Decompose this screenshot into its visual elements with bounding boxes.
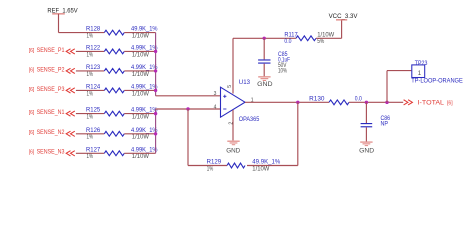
svg-text:1/10W: 1/10W	[132, 115, 149, 121]
wire supply rail left	[233, 37, 296, 39]
wire supply rail right	[316, 37, 342, 39]
svg-text:SENSE_N3: SENSE_N3	[37, 150, 65, 156]
wire N bus vertical	[155, 109, 157, 153]
svg-text:1/10W: 1/10W	[132, 154, 149, 160]
off-sheet connector SENSE_P1	[66, 49, 75, 54]
junction TP23 tap	[385, 101, 388, 104]
wire R126 right	[124, 133, 155, 135]
wire op-amp V- pin2	[232, 110, 234, 140]
svg-text:SENSE_N1: SENSE_N1	[37, 110, 65, 116]
resistor R122	[86, 46, 158, 59]
wire C85 upper	[263, 38, 265, 59]
svg-text:SENSE_N2: SENSE_N2	[37, 130, 65, 136]
svg-text:[6]: [6]	[29, 87, 35, 93]
power port VCC_3.3V	[329, 14, 358, 21]
svg-text:1/10W: 1/10W	[252, 166, 269, 172]
svg-text:1%: 1%	[87, 115, 94, 121]
wire C86 lower	[365, 127, 367, 141]
ground C85	[258, 76, 270, 77]
svg-text:1%: 1%	[87, 34, 94, 40]
wire R125 right	[124, 113, 155, 115]
svg-text:U13: U13	[239, 80, 251, 86]
wire feedback bottom right	[247, 165, 298, 167]
svg-text:4.99K_1%: 4.99K_1%	[131, 46, 158, 52]
junction P bus R124	[154, 89, 157, 92]
svg-text:[6]: [6]	[29, 130, 35, 136]
svg-text:GND: GND	[226, 148, 240, 155]
svg-text:1%: 1%	[87, 72, 94, 78]
svg-text:0.0: 0.0	[284, 39, 292, 45]
resistor R125	[86, 108, 158, 121]
svg-text:[6]: [6]	[29, 110, 35, 116]
off-sheet connector SENSE_N1	[66, 111, 75, 116]
wire R128 left	[59, 32, 105, 34]
svg-text:1/10W: 1/10W	[132, 52, 149, 58]
junction P bus R122	[154, 50, 157, 53]
svg-text:4.99K_1%: 4.99K_1%	[131, 85, 158, 91]
svg-text:49.9K_1%: 49.9K_1%	[252, 160, 281, 166]
wire C85 lower	[263, 64, 265, 76]
resistor R126	[86, 128, 158, 141]
svg-text:R130: R130	[309, 96, 325, 102]
svg-text:4.99K_1%: 4.99K_1%	[131, 147, 158, 153]
off-sheet connector SENSE_N2	[66, 131, 75, 136]
capacitor C86	[361, 116, 391, 128]
wire R122 right	[124, 50, 155, 52]
svg-text:OPA365: OPA365	[239, 117, 260, 123]
wire op-amp pin3	[156, 95, 221, 97]
wire C86 upper	[365, 102, 367, 123]
junction P bus R123	[154, 69, 157, 72]
resistor R129	[207, 160, 281, 173]
test point TP23	[411, 61, 463, 85]
svg-text:1%: 1%	[87, 91, 94, 97]
resistor R128	[86, 27, 158, 40]
svg-text:R128: R128	[86, 27, 101, 33]
svg-text:5%: 5%	[317, 39, 325, 45]
svg-text:4: 4	[214, 104, 217, 110]
svg-text:SENSE_P2: SENSE_P2	[37, 67, 65, 73]
svg-text:[6]: [6]	[29, 67, 35, 73]
wire op-amp pin4	[156, 108, 221, 110]
wire R128 right	[124, 32, 155, 34]
wire output right	[349, 101, 403, 103]
off-sheet connector SENSE_P2	[66, 68, 75, 73]
wire R123 right	[124, 70, 155, 72]
ground C86	[360, 142, 372, 143]
svg-text:1/10W: 1/10W	[132, 72, 149, 78]
svg-text:1%: 1%	[87, 135, 94, 141]
svg-text:GND: GND	[359, 147, 374, 154]
svg-text:1/10W: 1/10W	[132, 34, 149, 40]
svg-text:10%: 10%	[278, 69, 287, 75]
power port REF_1.65V	[47, 8, 77, 14]
wire feedback bottom left	[188, 165, 227, 167]
resistor R117	[284, 33, 334, 45]
svg-text:TP-LOOP-ORANGE: TP-LOOP-ORANGE	[411, 79, 463, 85]
wire feedback left vertical	[187, 109, 189, 166]
svg-text:TP23: TP23	[415, 61, 428, 67]
wire R122 left	[76, 50, 104, 52]
svg-text:1%: 1%	[207, 166, 214, 172]
wire R127 right	[124, 152, 155, 154]
svg-text:1/10W: 1/10W	[132, 135, 149, 141]
junction feedback tap	[186, 107, 189, 110]
wire op-amp V+ pin5	[232, 38, 234, 93]
svg-text:5: 5	[227, 85, 233, 88]
svg-text:I-TOTAL: I-TOTAL	[418, 100, 445, 106]
wire REF_1.65V vertical	[58, 14, 60, 33]
off-sheet connector I-TOTAL	[404, 100, 413, 105]
svg-text:0.0: 0.0	[355, 96, 363, 102]
svg-text:4.99K_1%: 4.99K_1%	[131, 65, 158, 71]
wire R124 right	[124, 89, 155, 91]
svg-text:2: 2	[229, 122, 235, 125]
svg-text:3: 3	[214, 91, 217, 97]
wire TP23 horizontal	[387, 70, 411, 72]
svg-text:GND: GND	[257, 81, 273, 88]
svg-text:VCC_3.3V: VCC_3.3V	[329, 14, 358, 20]
svg-text:[6]: [6]	[29, 48, 35, 54]
svg-text:1%: 1%	[87, 52, 94, 58]
svg-text:R126: R126	[86, 128, 101, 134]
wire R124 left	[76, 89, 104, 91]
svg-text:R124: R124	[86, 85, 101, 91]
svg-text:NP: NP	[381, 122, 389, 128]
off-sheet connector SENSE_N3	[66, 151, 75, 156]
svg-text:R122: R122	[86, 46, 101, 52]
svg-text:R123: R123	[86, 65, 101, 71]
wire P bus vertical	[155, 33, 157, 96]
resistor R123	[86, 65, 158, 78]
svg-text:[6]: [6]	[447, 100, 453, 106]
svg-text:1/10W: 1/10W	[132, 91, 149, 97]
wire feedback right vertical	[297, 102, 299, 165]
junction C86	[365, 101, 368, 104]
svg-text:4.99K_1%: 4.99K_1%	[131, 108, 158, 114]
capacitor C85	[258, 52, 290, 75]
wire TP23 vertical	[386, 71, 388, 103]
svg-text:1%: 1%	[87, 154, 94, 160]
svg-text:SENSE_P1: SENSE_P1	[37, 48, 65, 54]
svg-text:R127: R127	[86, 147, 101, 153]
svg-text:4.99K_1%: 4.99K_1%	[131, 128, 158, 134]
wire R127 left	[76, 152, 104, 154]
ground U13	[227, 141, 239, 142]
svg-text:R129: R129	[207, 160, 222, 166]
wire VCC vertical	[341, 20, 343, 39]
op-amp U13 OPA365	[221, 80, 260, 123]
wire R125 left	[76, 113, 104, 115]
svg-text:SENSE_P3: SENSE_P3	[37, 87, 65, 93]
wire op-amp output	[245, 101, 329, 103]
resistor R127	[86, 147, 158, 160]
svg-text:R125: R125	[86, 108, 101, 114]
junction feedback to output	[296, 101, 299, 104]
junction C85	[263, 37, 266, 40]
junction N bus R126	[154, 132, 157, 135]
svg-text:49.9K_1%: 49.9K_1%	[131, 27, 158, 33]
junction N bus R125	[154, 112, 157, 115]
svg-text:1/10W: 1/10W	[317, 33, 334, 39]
resistor R130	[309, 96, 362, 104]
wire R123 left	[76, 70, 104, 72]
wire R126 left	[76, 133, 104, 135]
off-sheet connector SENSE_P3	[66, 88, 75, 93]
svg-text:[6]: [6]	[29, 150, 35, 156]
resistor R124	[86, 85, 158, 98]
